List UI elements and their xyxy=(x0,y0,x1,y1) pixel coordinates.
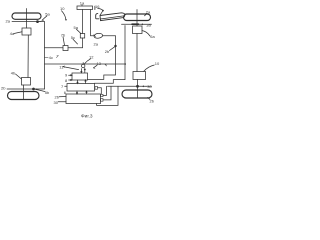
pump ellipse 2a xyxy=(94,33,103,39)
svg-text:5a: 5a xyxy=(74,25,79,30)
svg-text:5b: 5b xyxy=(45,90,50,95)
S3 output tab lower xyxy=(101,99,104,102)
wheel front-left 2a xyxy=(12,13,41,19)
label 2b S3 leader xyxy=(55,95,67,100)
label 2b rear-right xyxy=(148,98,155,104)
label 13 leader xyxy=(93,61,101,68)
svg-text:4b: 4b xyxy=(11,71,16,76)
label 5c leader xyxy=(71,35,78,44)
svg-text:6a: 6a xyxy=(150,34,155,39)
svg-text:1a: 1a xyxy=(80,1,85,6)
svg-text:10: 10 xyxy=(60,6,65,11)
brake unit box 4a front-left xyxy=(22,28,31,35)
label 11 leader xyxy=(59,64,78,69)
brake unit box 4b rear-left xyxy=(22,78,31,86)
svg-text:30: 30 xyxy=(147,84,152,89)
svg-text:2a: 2a xyxy=(94,42,99,47)
wire outer hook xyxy=(97,86,118,105)
MC left leg lower xyxy=(82,38,84,48)
svg-text:7b: 7b xyxy=(61,33,66,38)
svg-text:2b: 2b xyxy=(105,49,110,54)
svg-text:9: 9 xyxy=(65,73,68,78)
arrow mark on y64 line xyxy=(105,64,107,66)
label 1a xyxy=(80,1,85,7)
tick mark xyxy=(56,56,58,58)
wheel front-right 2a xyxy=(124,14,151,21)
label 4b leader xyxy=(11,71,22,80)
node dot rear-left axle xyxy=(32,88,35,91)
battery box S3 xyxy=(66,94,101,104)
node dot rear-right axle xyxy=(136,85,139,88)
brake unit box 3a front-right xyxy=(133,26,143,34)
wire B3 down to B4 xyxy=(136,34,138,72)
axle line front-right xyxy=(122,23,152,25)
svg-text:7: 7 xyxy=(61,84,64,89)
svg-text:10: 10 xyxy=(155,61,160,66)
S3 output tab upper xyxy=(101,94,104,96)
label 10 B4 curved leader xyxy=(144,61,160,72)
long axle line rear-right xyxy=(108,85,152,87)
vertical left trunk x44.5 xyxy=(44,22,46,89)
svg-text:2b: 2b xyxy=(150,98,155,103)
wire B4 down through wheel xyxy=(137,80,139,99)
brake pedal 1b xyxy=(96,13,125,21)
controller box S2 xyxy=(67,84,95,92)
ECU box S1 xyxy=(72,73,88,80)
pump circle 12 xyxy=(82,63,85,68)
label 5a valve leader xyxy=(74,25,82,34)
label 30 arrow rear-right xyxy=(142,84,152,89)
arrows circle to box S1 xyxy=(81,69,86,73)
valve square on y48 xyxy=(63,46,68,51)
valve 5a square xyxy=(80,34,84,39)
modulator box B4 xyxy=(133,72,146,80)
svg-text:3a: 3a xyxy=(146,22,151,27)
label 5b leader xyxy=(35,89,50,95)
svg-text:8: 8 xyxy=(65,78,68,83)
label 2b junction leader xyxy=(105,47,115,54)
node dot on y64 right end xyxy=(124,63,126,65)
label 10 with curved leader xyxy=(60,6,67,21)
svg-text:30: 30 xyxy=(54,100,59,105)
label 8 arrow xyxy=(65,78,72,83)
label 2a front-right xyxy=(145,9,152,16)
svg-text:Фиг.3: Фиг.3 xyxy=(81,114,93,120)
svg-text:2a: 2a xyxy=(6,18,11,23)
sensor dash front-right xyxy=(132,23,139,25)
MC right leg xyxy=(91,10,95,36)
S2 output tab right xyxy=(95,87,98,90)
master cylinder 1a xyxy=(77,6,93,10)
label 30 S3 leader xyxy=(54,100,67,105)
axle line front-left xyxy=(12,21,41,23)
node junction dot pump line xyxy=(114,45,116,47)
svg-text:2b: 2b xyxy=(1,85,6,90)
axle line rear-left xyxy=(7,88,45,90)
staircase from W2 axle xyxy=(95,26,126,84)
wire B1 to B2 xyxy=(27,35,29,78)
arrow S3 to S2 xyxy=(86,91,87,94)
wire S2 tab down to S3 tab1 xyxy=(98,88,102,95)
svg-text:5a: 5a xyxy=(45,11,50,16)
wire sensor stub front-left xyxy=(39,21,45,23)
wire tab1 up to long line xyxy=(103,86,107,95)
wire center vline front-right xyxy=(136,10,138,27)
label 5a with leader xyxy=(42,11,51,20)
MC left leg xyxy=(82,10,84,34)
label 9 arrow xyxy=(65,73,72,78)
arrow S2 to S3 xyxy=(76,91,77,94)
label 7 arrow xyxy=(61,84,67,89)
wheel rear-right 2b xyxy=(122,90,152,98)
label 4a with leader xyxy=(10,31,22,36)
pump outlet line to right and down xyxy=(88,36,116,80)
wire B2 down to wheel xyxy=(23,85,25,100)
wire tab2 up to long line xyxy=(103,86,111,100)
arrows S1 to S2 xyxy=(77,80,86,84)
svg-text:4c: 4c xyxy=(49,55,53,60)
wire center vline front-left wheel xyxy=(26,9,28,29)
label 1b with leader and dot xyxy=(95,4,104,15)
hydraulic line y64 xyxy=(45,63,126,65)
label 12 leader xyxy=(85,55,95,64)
label 7b leader xyxy=(61,33,66,46)
label 6a curved leader xyxy=(142,31,156,39)
label 3a arrow xyxy=(141,22,151,27)
hydraulic line y48 xyxy=(45,47,83,49)
svg-text:12: 12 xyxy=(89,55,94,60)
pushrod xyxy=(94,6,96,9)
node sensor dot front-left xyxy=(36,20,39,23)
wheel rear-left 2b xyxy=(8,92,40,100)
